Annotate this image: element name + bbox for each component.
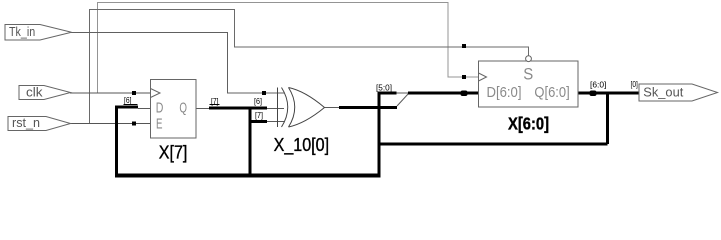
- svg-text:S: S: [523, 66, 533, 84]
- svg-text:D[6:0]: D[6:0]: [487, 84, 522, 101]
- svg-text:[6]: [6]: [254, 96, 262, 106]
- svg-text:[7]: [7]: [211, 96, 219, 106]
- svg-text:rst_n: rst_n: [12, 115, 40, 130]
- svg-text:X[6:0]: X[6:0]: [508, 114, 549, 134]
- svg-text:clk: clk: [26, 85, 43, 100]
- svg-text:X[7]: X[7]: [159, 143, 188, 163]
- svg-text:[5:0]: [5:0]: [376, 83, 392, 93]
- svg-text:Q[6:0]: Q[6:0]: [534, 84, 569, 101]
- svg-text:[6:0]: [6:0]: [590, 80, 606, 90]
- svg-text:E: E: [156, 116, 163, 133]
- svg-text:Sk_out: Sk_out: [643, 85, 683, 100]
- svg-text:[6]: [6]: [124, 95, 132, 105]
- svg-text:X_10[0]: X_10[0]: [274, 135, 330, 156]
- svg-text:D: D: [156, 99, 164, 116]
- svg-text:[0]: [0]: [631, 79, 638, 89]
- svg-text:[7]: [7]: [255, 110, 263, 120]
- svg-text:Q: Q: [179, 99, 187, 116]
- svg-text:Tk_in: Tk_in: [9, 24, 35, 39]
